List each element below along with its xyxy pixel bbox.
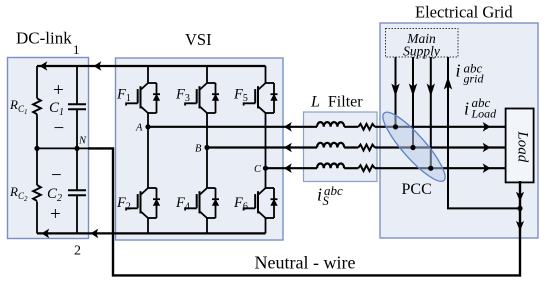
supply wire c — [430, 57, 432, 168]
arrow up igrid — [444, 77, 452, 90]
VSI leg 3 top wire — [265, 66, 267, 168]
supply wire a — [395, 57, 397, 127]
arrow iS phase A — [284, 122, 292, 132]
svg-text:i: i — [456, 61, 461, 81]
arrow on top bus at DC-link edge — [94, 61, 102, 71]
wire: phase A line — [148, 126, 505, 128]
svg-text:C: C — [254, 164, 262, 175]
transistor F5 — [244, 83, 278, 113]
svg-text:Load: Load — [471, 107, 498, 121]
junction dot supply a — [393, 124, 398, 129]
svg-text:Electrical Grid: Electrical Grid — [415, 3, 513, 22]
resistor phase A — [358, 124, 375, 130]
arrow into load phase A — [483, 122, 491, 132]
transistor F2 — [126, 188, 160, 218]
inductor phase C — [317, 164, 344, 169]
PCC ellipse — [376, 105, 453, 188]
junction dot rail-R branch — [34, 146, 39, 151]
svg-text:i: i — [464, 99, 469, 119]
junction dot supply b — [410, 145, 415, 150]
junction dot supply c (over ellipse) — [428, 166, 433, 171]
transistor F4 — [185, 188, 219, 218]
junction dot neutral — [517, 206, 522, 211]
capacitor C2 — [68, 190, 86, 195]
VSI leg 2 top wire — [206, 66, 208, 148]
svg-text:PCC: PCC — [402, 181, 432, 198]
junction dot supply b (over ellipse) — [410, 145, 415, 150]
svg-text:grid: grid — [464, 72, 485, 86]
arrow down supply b — [409, 84, 417, 97]
wire: top DC bus (node1 to VSI legs) — [37, 65, 266, 67]
wire: N mid rail — [37, 147, 113, 149]
svg-text:Supply: Supply — [403, 44, 440, 59]
svg-text:DC-link: DC-link — [16, 29, 72, 48]
node B dot — [204, 145, 209, 150]
svg-text:A: A — [135, 123, 143, 134]
arrow into load phase C — [483, 163, 491, 173]
arrow on bottom bus inside DC-link — [41, 229, 49, 239]
svg-text:L Filter: L Filter — [310, 94, 363, 111]
supply neutral wire vertical — [448, 57, 520, 208]
transistor F6 — [244, 188, 278, 218]
arrow down supply a — [391, 84, 399, 97]
arrow down load neutral 2 — [516, 221, 524, 231]
node A dot — [145, 124, 150, 129]
resistor RC2 — [33, 185, 41, 201]
VSI leg 1 top wire — [147, 66, 149, 127]
resistor phase B — [358, 145, 375, 151]
wire: phase C line — [266, 167, 506, 169]
load neutral wire down — [88, 148, 520, 275]
wire: bottom DC bus (node2 to VSI legs) — [37, 232, 266, 234]
VSI leg 3 bottom wire — [265, 168, 267, 233]
svg-text:N: N — [78, 136, 87, 147]
junction dot rail-C branch — [74, 146, 79, 151]
DC-link block box — [8, 58, 89, 239]
node C dot — [263, 166, 268, 171]
Main Supply dashed box — [386, 29, 459, 58]
junction dot supply c — [428, 166, 433, 171]
svg-text:1: 1 — [73, 42, 80, 57]
Load box — [506, 109, 534, 183]
wire: phase B line — [207, 146, 505, 148]
Electrical Grid block box — [380, 23, 538, 238]
VSI leg 2 bottom wire — [206, 148, 208, 234]
svg-text:−: − — [54, 118, 65, 139]
svg-text:2: 2 — [74, 244, 81, 259]
inductor phase B — [317, 143, 344, 148]
junction dot supply a (over ellipse) — [393, 124, 398, 129]
svg-text:S: S — [323, 194, 330, 208]
capacitor C1 — [68, 104, 86, 109]
resistor RC1 — [33, 98, 41, 114]
L Filter block box — [304, 112, 378, 182]
svg-text:i: i — [317, 185, 322, 205]
svg-text:VSI: VSI — [185, 30, 212, 49]
transistor F1 — [126, 83, 160, 113]
wire: DC-link resistor branch — [36, 66, 38, 233]
arrow down supply c — [427, 84, 435, 97]
svg-text:B: B — [195, 144, 202, 155]
svg-text:Neutral - wire: Neutral - wire — [255, 253, 356, 273]
svg-text:+: + — [50, 204, 61, 225]
inductor phase A — [317, 122, 344, 127]
wire: DC-link capacitor branch — [76, 66, 78, 233]
supply wire b — [412, 57, 414, 148]
transistor F3 — [185, 83, 219, 113]
svg-text:+: + — [53, 80, 64, 101]
arrow down load neutral 1 — [516, 192, 524, 202]
resistor phase C — [358, 165, 375, 171]
VSI leg 1 bottom wire — [147, 127, 149, 234]
arrow on bottom bus at DC-link edge — [91, 229, 99, 239]
arrow iS phase C — [284, 163, 292, 173]
svg-text:−: − — [51, 165, 62, 186]
arrow on top bus inside DC-link — [40, 61, 48, 71]
arrow iS phase B — [284, 143, 292, 153]
arrow into load phase B — [483, 143, 491, 153]
svg-text:Load: Load — [515, 130, 531, 162]
VSI block box — [116, 58, 284, 240]
